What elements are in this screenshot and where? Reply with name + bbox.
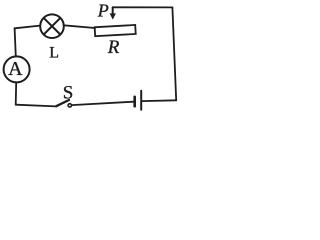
wire: right corner to battery xyxy=(142,99,176,102)
battery: short plate xyxy=(133,97,136,106)
wire: top run to right corner xyxy=(113,6,173,8)
switch S: contact circle xyxy=(68,104,71,107)
wire: lamp to rheostat xyxy=(64,25,95,28)
svg-text:A: A xyxy=(8,58,23,80)
wire: left rail lower xyxy=(15,82,18,104)
battery: long plate xyxy=(140,91,142,110)
wire: bottom-left run xyxy=(16,105,56,107)
svg-text:R: R xyxy=(107,37,120,58)
svg-text:L: L xyxy=(49,45,59,62)
switch S: blade xyxy=(56,100,69,106)
slider arrow P xyxy=(110,7,116,19)
svg-text:S: S xyxy=(63,83,74,104)
wire: top-left horizontal xyxy=(15,26,40,29)
wire: right rail xyxy=(172,7,176,100)
lamp L (circle with cross) xyxy=(40,14,64,38)
wire: left rail upper xyxy=(15,28,16,56)
svg-text:P: P xyxy=(97,1,109,21)
wire: battery to switch xyxy=(72,102,134,105)
ammeter A xyxy=(4,56,30,82)
rheostat R body xyxy=(95,25,136,36)
